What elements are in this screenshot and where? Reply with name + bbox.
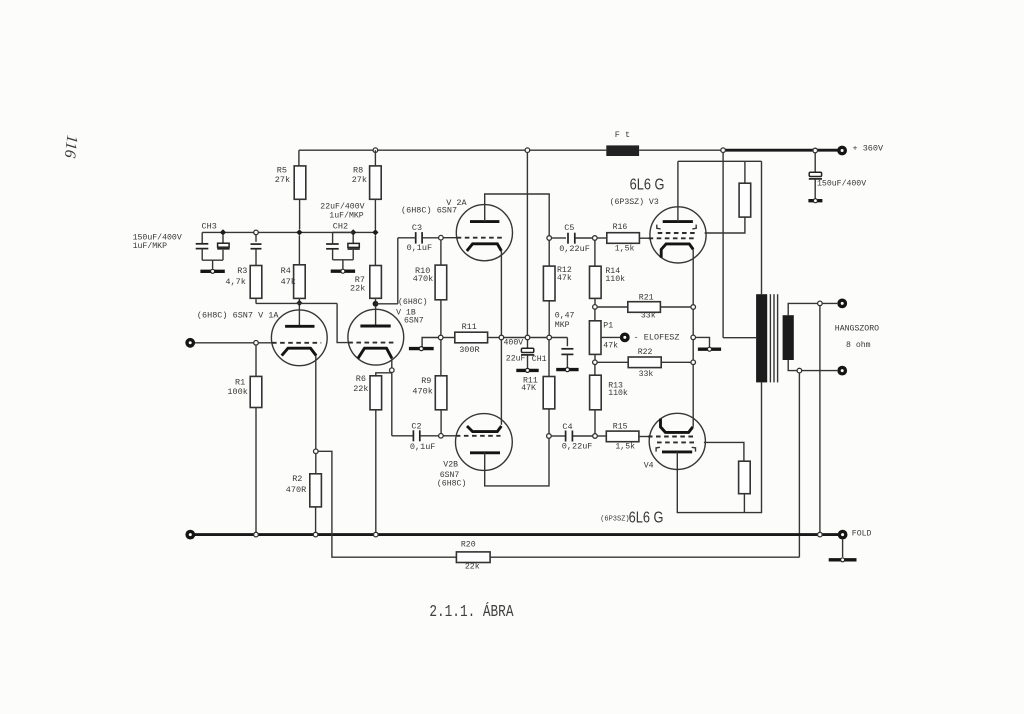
node V1B cathode junction [390,368,395,373]
node junction 150uF tap [813,148,818,153]
svg-text:R8: R8 [353,165,363,175]
svg-text:110k: 110k [605,274,625,284]
svg-text:0,1uF: 0,1uF [407,243,433,253]
wire feedback from R2 node [318,451,456,557]
svg-text:22k: 22k [350,283,365,293]
svg-text:22uF/400V: 22uF/400V [320,201,364,211]
resistor R3 4,7k [250,266,262,299]
wire grid-leak ground tap [422,338,438,347]
svg-text:(6H8C): (6H8C) [398,297,427,307]
terminal +360V [837,146,847,156]
resistor R7 22k [374,236,376,266]
svg-text:0,22uF: 0,22uF [559,244,590,254]
capacitor C4 0,22uF [551,435,565,437]
ground grid-leak [409,347,434,350]
svg-text:470k: 470k [412,386,432,396]
resistor R21 33k [597,306,628,308]
wire P1 wiper to ELOFESZ terminal [601,336,620,338]
svg-text:(6P3SZ): (6P3SZ) [600,516,629,524]
svg-text:R9: R9 [421,376,431,386]
V4 control grid dashes [648,436,696,438]
ground CH1 [516,369,538,372]
wire FOLD to ground [842,540,844,558]
wire bias rail [504,337,568,339]
wire V4 g2 to screen resistor [704,442,744,461]
node C2/R9/V2B-grid junction [439,434,444,439]
svg-text:F t: F t [615,130,630,140]
wire ground bus bold [190,533,838,536]
svg-text:47K: 47K [521,384,536,393]
svg-text:33k: 33k [641,311,656,321]
V4 screen resistor [739,461,751,494]
resistor R1 100k [255,345,257,376]
node R1 bottom [254,532,259,537]
svg-text:470R: 470R [286,485,306,495]
svg-text:150uF/400V: 150uF/400V [817,178,866,188]
svg-text:V2B: V2B [443,460,458,469]
svg-text:47k: 47k [603,340,618,350]
resistor R22 33k [597,361,628,363]
svg-text:V4: V4 [644,461,654,470]
resistor R13 110k [594,365,596,376]
terminal input lower [185,530,195,540]
V3 screen resistor [744,161,746,183]
svg-text:C3: C3 [412,223,422,233]
capacitor CH1 22uF/400V [527,340,529,349]
V4 screen grid dashes [657,441,697,443]
node secondary-top/ground-riser junction [818,301,823,306]
node C5/R16/R14 junction [593,236,598,241]
V3 screen grid dashes [658,232,698,234]
wire secondary to ground bus riser [819,306,821,535]
svg-text:47k: 47k [281,277,296,287]
wire V3 anode top link [678,160,762,162]
terminal input upper [185,338,195,348]
transformer primary winding bar [756,294,767,382]
svg-text:CH1: CH1 [532,355,547,364]
transformer secondary winding bar [783,315,794,360]
terminal speaker + [837,299,847,309]
wire cathode to ground [696,337,710,347]
node R3 branch [254,230,259,235]
svg-text:2.1.1. ÁBRA: 2.1.1. ÁBRA [429,601,513,621]
V3 beam plates [657,225,661,229]
node input/R1 junction [254,341,259,346]
V4 anode [662,450,692,453]
node V1A anode junction [296,300,302,306]
node R2 bottom [313,532,318,537]
svg-text:- ELOFESZ: - ELOFESZ [634,332,680,342]
fuse Ft [606,145,639,156]
resistor R11 300R [443,337,455,339]
wire secondary bottom to speaker terminal [788,360,837,371]
wire common cathode vertical [500,251,502,335]
V3 anode [663,220,693,223]
svg-text:4,7k: 4,7k [225,277,245,287]
svg-text:22k: 22k [465,562,480,572]
svg-text:C5: C5 [564,223,574,233]
svg-text:CH2: CH2 [333,222,348,232]
svg-text:1uF/MKP: 1uF/MKP [133,241,167,251]
svg-text:110k: 110k [608,388,628,398]
svg-text:HANGSZORO: HANGSZORO [835,325,879,334]
capacitor 150uF/400V [814,153,816,173]
ground output cathodes [698,348,721,351]
svg-text:R3: R3 [237,266,247,276]
svg-text:6SN7: 6SN7 [404,316,424,325]
V1B cathode [358,348,392,358]
node R10/R9/R11 junction [438,335,443,340]
node CH1 tap [525,335,530,340]
node R12/R11-47K tap [547,335,552,340]
svg-text:47k: 47k [557,273,572,283]
V3 control grid dashes [649,237,697,239]
svg-text:22k: 22k [353,384,368,394]
ground CH3 [200,270,224,273]
wire V4 anode to transformer bottom [677,382,761,512]
tube V1B 6SN7 circle [348,309,404,365]
capacitor C3 0,1uF [415,232,417,244]
V1A anode [298,306,300,326]
capacitor series R3 branch [255,235,257,242]
transformer core lines [769,294,771,382]
V2A anode + riser to C5 node [470,220,499,223]
svg-text:1uF/MKP: 1uF/MKP [329,211,363,221]
resistor R15 1,5k [597,435,606,437]
node junction transformer CT feed [721,148,726,153]
resistor R4 47k [298,236,300,265]
V4 beam plates [656,447,660,451]
svg-text:400V: 400V [504,338,524,347]
svg-text:470k: 470k [413,274,433,284]
wire cathode to R6 and C2 [391,372,393,436]
svg-text:0,47: 0,47 [555,311,575,320]
svg-text:R6: R6 [356,374,366,384]
svg-text:300R: 300R [459,345,479,355]
svg-text:6L6 G: 6L6 G [630,176,665,194]
wire V4 cathode up [692,419,694,427]
node R14/R21/P1 junction [593,305,598,310]
V1B grid dashes [348,342,394,344]
node cathode/R11 junction [499,335,504,340]
node R5/R4 junction [296,229,302,235]
node secondary-bottom/feedback junction [797,368,802,373]
wire V3 g2 to screen resistor [705,217,745,233]
resistor R8 27k [374,150,376,166]
V1A grid wire + input [195,342,272,344]
resistor R9 470k [440,340,442,376]
V2A cathode [467,244,502,251]
wire CH3 bottom [202,259,223,261]
V2A grid [443,237,456,239]
svg-text:1,5k: 1,5k [615,243,635,253]
svg-text:R21: R21 [639,293,654,302]
wire secondary top to speaker terminal [788,303,837,315]
V3 cathode [661,244,693,258]
tube V2A 6SN7 circle [456,205,512,261]
node junction R8 top [373,148,378,153]
svg-text:+ 360V: + 360V [853,144,885,154]
svg-text:6L6 G: 6L6 G [629,509,664,527]
svg-text:R4: R4 [281,266,291,276]
V2B grid [443,435,455,437]
node V1B anode junction [373,301,379,307]
resistor R5 27k [298,150,300,166]
V2B anode + riser to C4 node [470,451,500,454]
resistor R11 47K [548,340,550,377]
node R21 right junction [691,305,696,310]
ground 150uF [808,199,822,202]
svg-text:R20: R20 [461,541,476,550]
node CH2 [350,229,356,235]
node cathode ground tap [691,335,696,340]
svg-text:8 ohm: 8 ohm [846,340,871,350]
ground FOLD [829,558,857,561]
ground CH2 [331,270,355,273]
wire V1B anode to C3 riser [376,303,398,305]
svg-text:R16: R16 [613,223,628,232]
node R22 right junction [691,360,696,365]
resistor R10 470k [440,240,442,265]
capacitor C5 0,22uF [552,237,567,239]
wire feedback riser [798,373,800,557]
svg-text:150uF/400V: 150uF/400V [133,233,182,243]
node P1/R22/R13 junction [593,360,598,365]
terminal -ELOFESZ bias [620,333,630,343]
resistor R14 110k [594,240,596,266]
svg-text:FOLD: FOLD [852,530,872,539]
tube V3 6L6 circle [650,207,706,263]
svg-text:(6H8C) 6SN7: (6H8C) 6SN7 [401,205,457,215]
node C4 junction [547,434,552,439]
wire CH2 bottom [333,259,354,261]
svg-text:R22: R22 [638,348,653,357]
svg-text:(6H8C): (6H8C) [437,478,466,488]
tube V2B 6SN7 circle [456,414,513,471]
svg-text:CH3: CH3 [202,221,217,231]
svg-text:R2: R2 [292,474,302,484]
node C5 junction [547,236,552,241]
resistor R20 22k [456,552,490,563]
V1B anode [375,307,377,326]
capacitor CH3 1uF/MKP film [222,235,224,243]
svg-text:22uF: 22uF [506,355,526,364]
terminal FOLD [838,530,848,540]
tube V4 6L6 circle [649,413,705,469]
wire V1A anode node to V1B grid [256,302,337,304]
node R6 bottom [374,532,379,537]
svg-text:0,22uF: 0,22uF [562,441,593,451]
svg-text:R15: R15 [613,422,628,431]
tube V1A 6SN7 circle [271,310,327,366]
svg-text:27k: 27k [352,175,367,185]
V4 cathode (inverted) [661,419,693,433]
node C4/R13/R15 junction [593,434,598,439]
wire bold rail to +360V terminal [723,149,838,152]
svg-text:C4: C4 [562,422,572,432]
resistor R2 470R [315,454,317,474]
node ground riser junction [818,532,823,537]
terminal speaker - [837,366,847,376]
wire V3 cathode down [692,249,694,304]
resistor R16 1,5k [597,237,607,239]
node junction bias-rail feed [525,148,530,153]
svg-text:0,1uF: 0,1uF [410,442,436,452]
svg-text:33k: 33k [639,369,654,379]
wire B+ to transformer CT [722,153,724,338]
wire rail feed from top [526,153,528,336]
node CH3 [220,229,226,235]
svg-text:R5: R5 [277,165,287,175]
svg-text:P1: P1 [603,322,613,331]
V1A cathode [282,348,317,355]
wire top supply rail y=150 [299,149,606,151]
ground 0,47 MKP [556,368,578,371]
svg-text:MKP: MKP [555,321,570,330]
svg-text:116: 116 [61,134,81,159]
capacitor C2 0,1uF [412,430,414,441]
svg-text:100k: 100k [227,387,247,397]
svg-text:R11: R11 [462,322,477,332]
node R8/R7 junction [372,229,378,235]
svg-text:(6P3SZ) V3: (6P3SZ) V3 [610,197,659,207]
svg-text:C2: C2 [411,421,421,431]
wire decoupling node y=232.4 [202,231,375,233]
potentiometer P1 47k [594,309,596,321]
capacitor 0,47 MKP [566,338,568,347]
V2B cathode (inverted) [467,426,501,432]
node R2 top / feedback junction [314,449,319,454]
svg-text:(6H8C) 6SN7 V 1A: (6H8C) 6SN7 V 1A [197,310,280,320]
capacitor CH2 1uF/MKP film [352,235,354,243]
svg-text:1,5k: 1,5k [615,442,635,452]
node C3/R10/V2A-grid junction [439,235,444,240]
svg-text:27k: 27k [275,175,290,185]
resistor R6 22k [370,376,382,410]
resistor R12 47k [548,240,550,266]
